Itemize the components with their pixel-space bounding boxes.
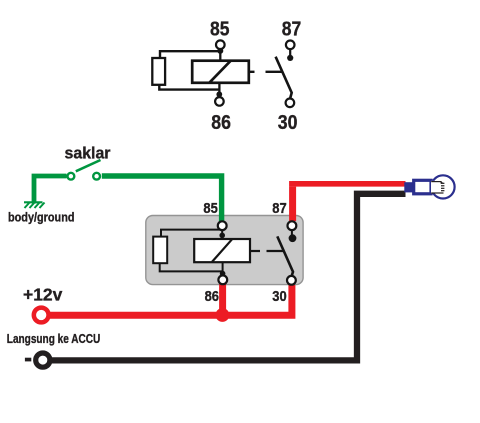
svg-text:86: 86 <box>205 288 219 305</box>
svg-text:saklar: saklar <box>65 143 111 162</box>
svg-text:87: 87 <box>282 19 302 41</box>
svg-text:87: 87 <box>272 200 286 217</box>
svg-text:30: 30 <box>272 288 286 305</box>
svg-text:85: 85 <box>210 19 230 41</box>
svg-text:30: 30 <box>278 112 298 134</box>
svg-text:Langsung ke ACCU: Langsung ke ACCU <box>7 331 101 346</box>
svg-text:+12v: +12v <box>23 285 63 305</box>
svg-text:body/ground: body/ground <box>8 209 75 224</box>
svg-text:86: 86 <box>211 112 231 134</box>
svg-text:85: 85 <box>203 200 217 217</box>
